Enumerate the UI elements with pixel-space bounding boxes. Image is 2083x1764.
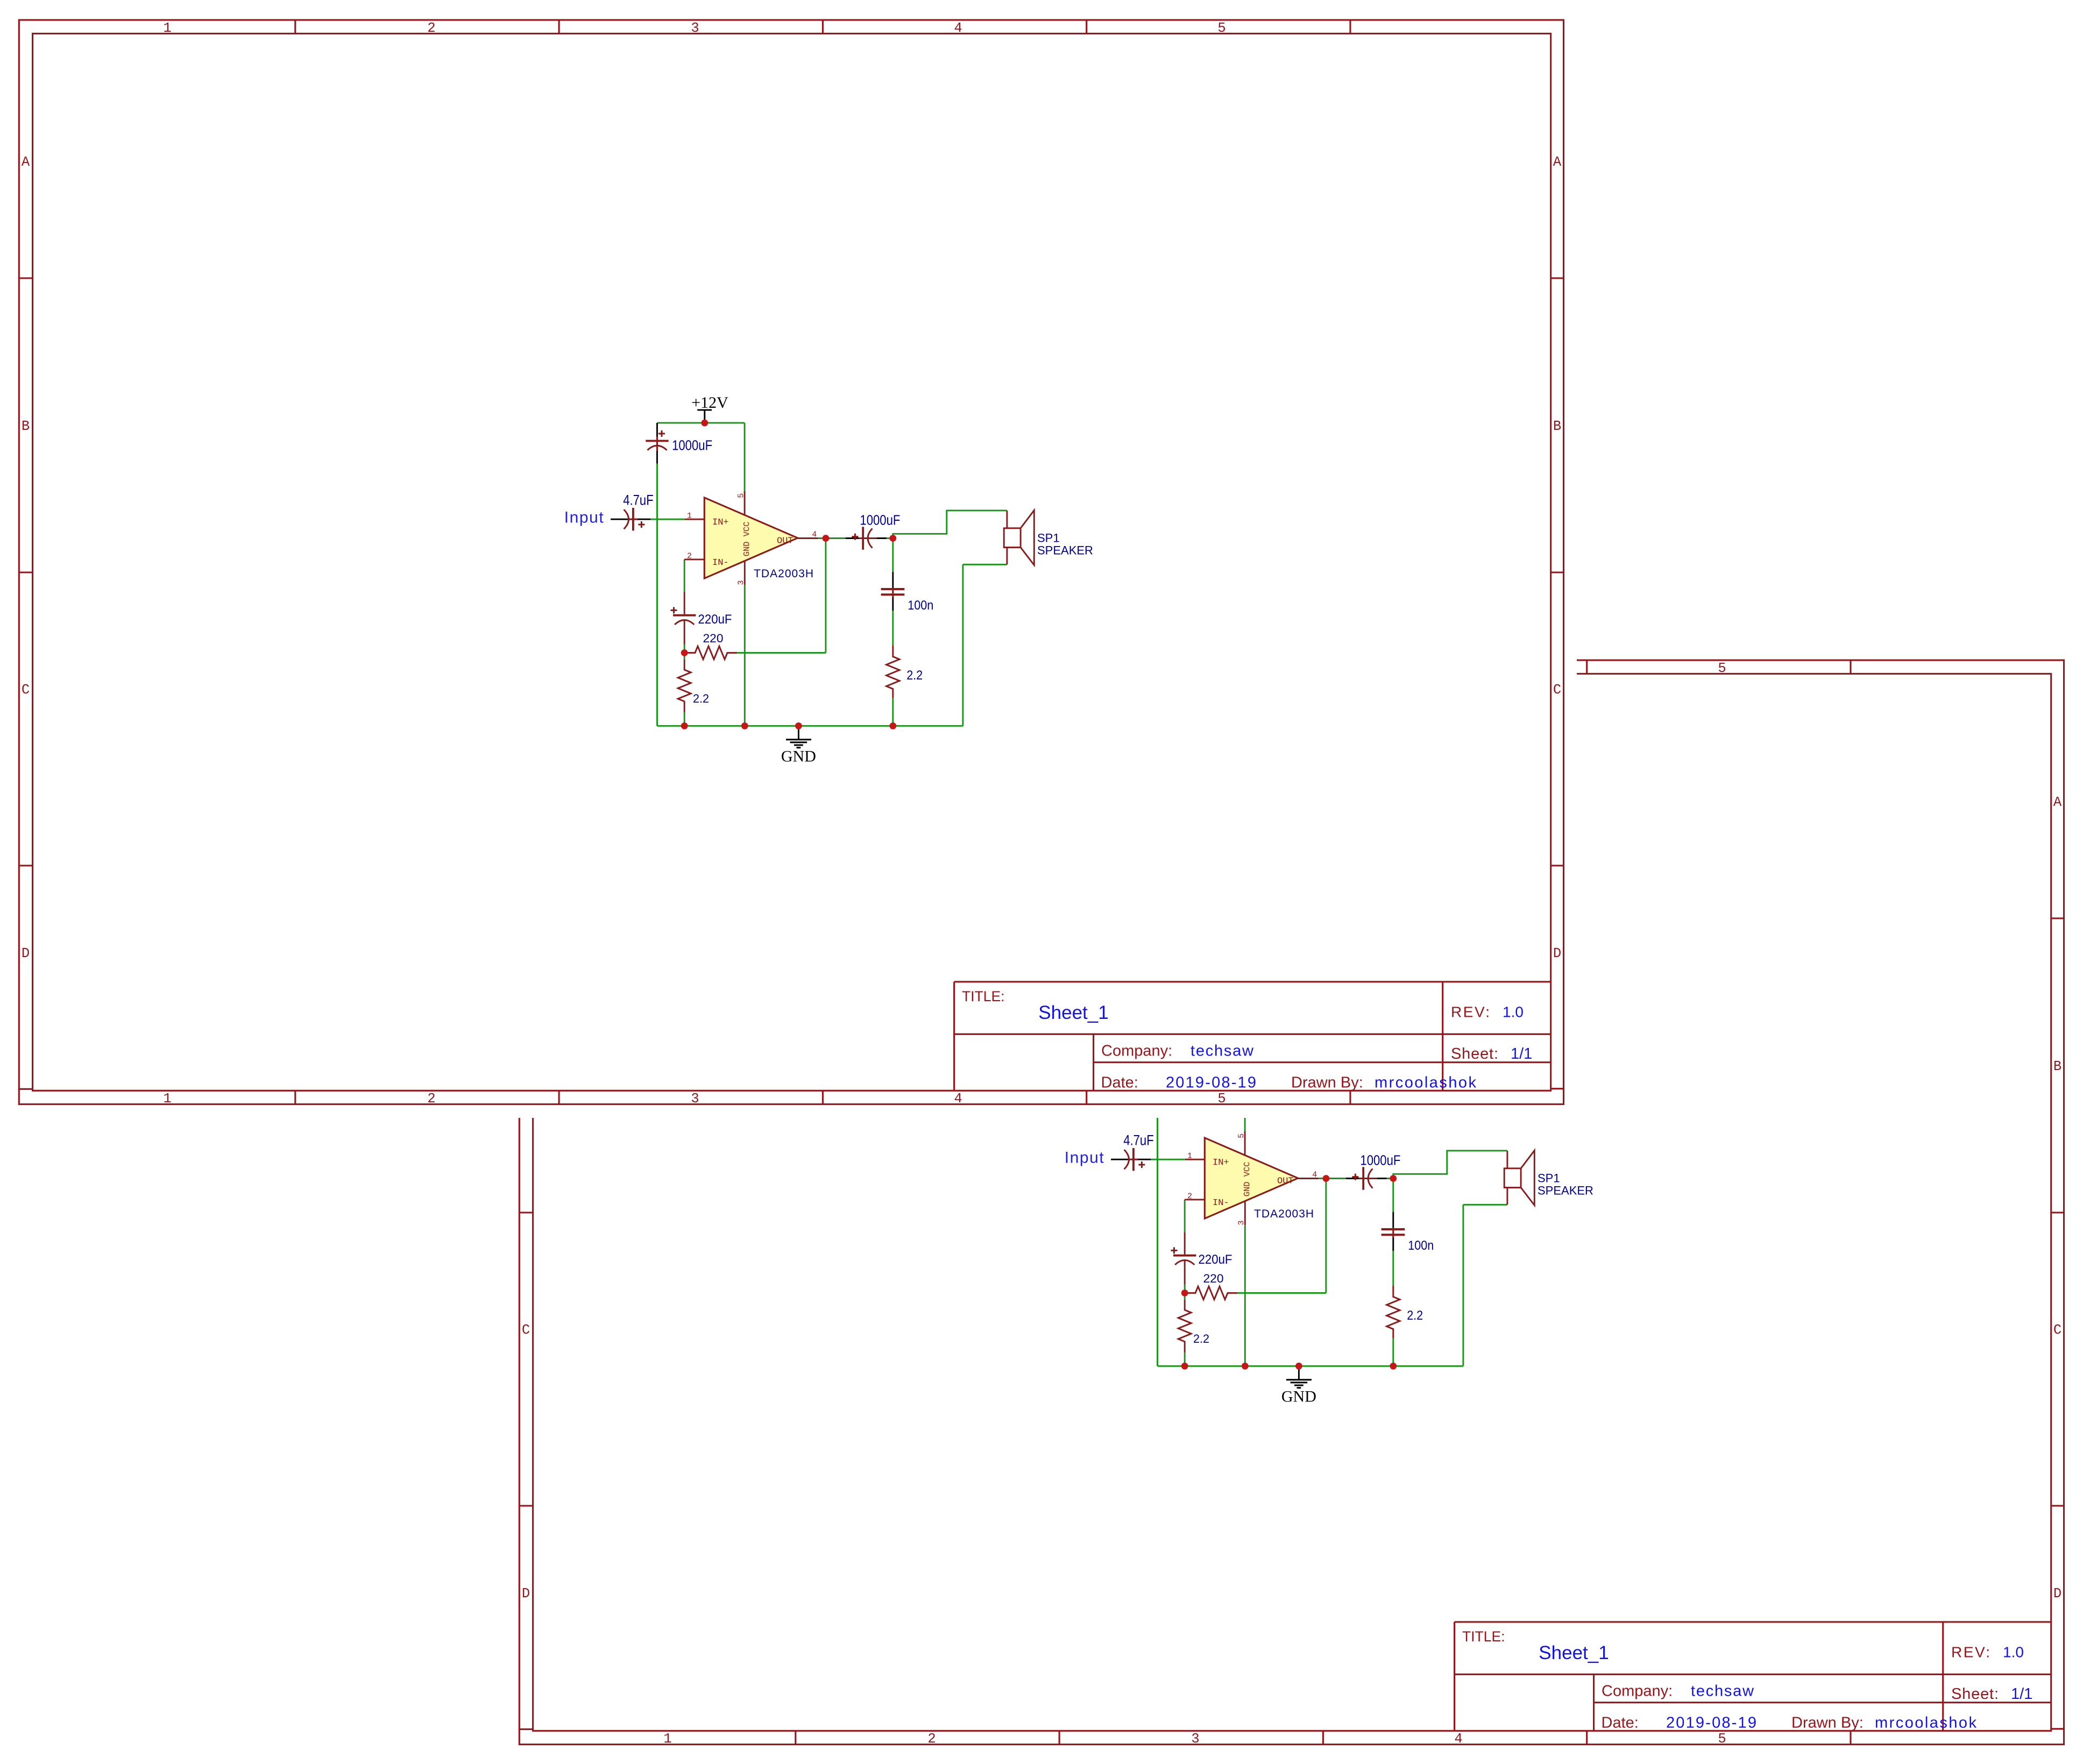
sheet 2 (lower right, drawn beneath)	[519, 660, 2064, 1747]
sheet 1 canvas background	[0, 0, 1577, 1118]
sheet 1 (upper left, on top)	[19, 20, 1563, 1107]
